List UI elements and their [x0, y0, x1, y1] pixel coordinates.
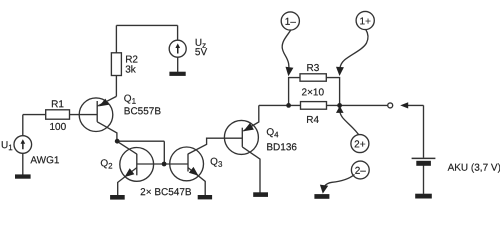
svg-text:Q3: Q3 — [210, 157, 223, 169]
svg-text:1–: 1– — [285, 17, 297, 28]
svg-text:AWG1: AWG1 — [30, 155, 60, 166]
svg-text:BC557B: BC557B — [124, 106, 162, 117]
svg-text:Q2: Q2 — [100, 158, 113, 170]
svg-text:U1: U1 — [1, 140, 13, 152]
svg-text:R3: R3 — [307, 63, 320, 74]
svg-text:1+: 1+ — [360, 16, 372, 27]
svg-text:R4: R4 — [306, 115, 319, 126]
svg-text:5V: 5V — [195, 47, 208, 58]
svg-text:AKU (3,7 V): AKU (3,7 V) — [448, 163, 500, 174]
svg-text:Q1: Q1 — [124, 94, 137, 106]
svg-text:2×10: 2×10 — [302, 87, 325, 98]
svg-text:Q4: Q4 — [266, 127, 279, 139]
svg-text:R1: R1 — [51, 99, 64, 110]
svg-text:2× BC547B: 2× BC547B — [140, 187, 192, 198]
svg-text:2–: 2– — [355, 166, 367, 177]
svg-text:100: 100 — [49, 122, 66, 133]
svg-text:2+: 2+ — [354, 139, 366, 150]
svg-text:BD136: BD136 — [266, 142, 297, 153]
svg-text:3k: 3k — [125, 64, 137, 75]
